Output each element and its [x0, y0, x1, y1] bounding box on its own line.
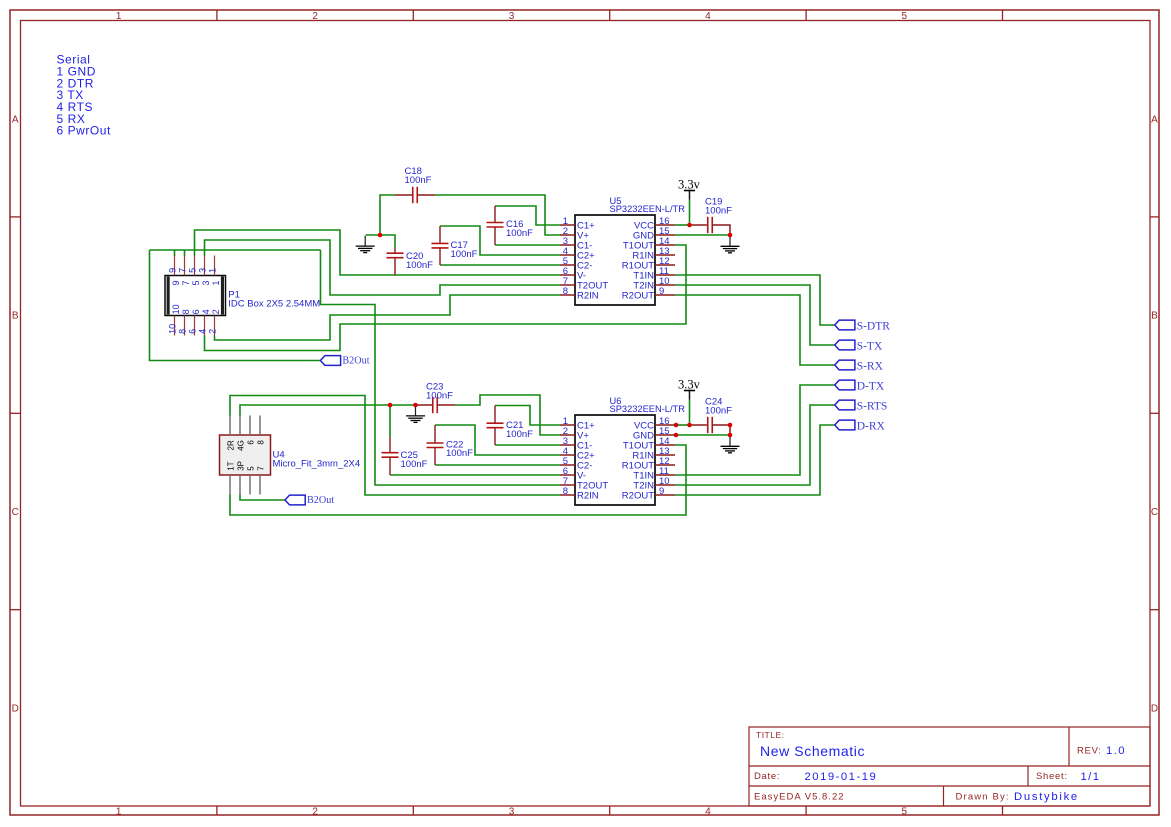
- net flag B2Out upper: [320, 356, 340, 366]
- wire U4 pin 4G to GND2 net C23: [240, 405, 416, 416]
- label C16 value 100nF: [506, 228, 533, 239]
- power 3.3v symbol (U6): [684, 391, 695, 400]
- wire U5 pin 15 GND: [675, 234, 730, 236]
- svg-text:10: 10: [167, 324, 177, 334]
- U5 pin 14 T1OUT: [655, 244, 675, 246]
- label net name S-RTS: [857, 401, 888, 413]
- U5 pin 15 GND: [655, 234, 675, 236]
- label U4 pin name 1T: [226, 461, 235, 470]
- label U4 part value Micro_Fit_3mm_2X4: [273, 459, 361, 470]
- junction 3.3v-VCC U6: [687, 423, 692, 428]
- label U6 pin number 7: [563, 476, 568, 487]
- wire P1 pin 7 riser: [184, 250, 186, 256]
- label U5 pin name C2-: [577, 261, 592, 272]
- svg-text:R2IN: R2IN: [577, 491, 599, 502]
- svg-text:Dustybike: Dustybike: [1014, 791, 1079, 803]
- U5 pin 10 T2IN: [655, 284, 675, 286]
- svg-text:R2OUT: R2OUT: [622, 491, 654, 502]
- svg-text:100nF: 100nF: [705, 205, 732, 216]
- wire U6 pin 10 T2IN to S-RTS: [675, 405, 835, 485]
- svg-text:2: 2: [312, 11, 318, 22]
- label P1 reference designator: [228, 290, 240, 301]
- label U6 pin name T1OUT: [623, 441, 654, 452]
- svg-text:D: D: [1151, 704, 1158, 715]
- svg-text:4: 4: [705, 806, 711, 817]
- capacitor C25: [382, 437, 399, 475]
- label C24 value 100nF: [705, 405, 732, 416]
- svg-text:3P: 3P: [236, 461, 245, 471]
- IC U5 SP3232EEN-L/TR body: [575, 215, 655, 305]
- IC U6 SP3232EEN-L/TR body: [575, 415, 655, 505]
- P1 pin 7: [184, 256, 186, 276]
- svg-text:R2IN: R2IN: [577, 291, 599, 302]
- wire P1 pin 5 to U5 pin 6 V-: [195, 230, 561, 275]
- svg-text:100nF: 100nF: [405, 175, 432, 186]
- junction U6 GND pin: [674, 433, 679, 438]
- svg-text:1T: 1T: [226, 461, 235, 470]
- U5 pin 6 V-: [560, 274, 575, 276]
- wire 3.3v U6 stem: [689, 400, 691, 426]
- label U5 reference designator: [610, 196, 622, 206]
- svg-text:4: 4: [705, 11, 711, 22]
- label U6 pin number 11: [659, 466, 669, 477]
- label U5 pin name V-: [577, 271, 586, 282]
- svg-text:8: 8: [563, 486, 568, 497]
- svg-text:5: 5: [902, 806, 908, 817]
- label P1 pin number 9: [167, 268, 181, 286]
- svg-text:3: 3: [197, 268, 207, 273]
- label C16 reference designator: [506, 219, 523, 230]
- U4 pin 2R: [229, 416, 231, 436]
- svg-text:4G: 4G: [236, 440, 245, 451]
- capacitor C23: [416, 397, 456, 413]
- U5 pin 13 R1IN: [655, 254, 675, 256]
- label U5 pin number 7: [563, 276, 568, 287]
- svg-text:Micro_Fit_3mm_2X4: Micro_Fit_3mm_2X4: [273, 459, 361, 470]
- svg-text:S-RTS: S-RTS: [857, 401, 888, 413]
- U4 pin 6: [249, 416, 251, 436]
- label C23 value 100nF: [426, 390, 453, 401]
- svg-text:C: C: [12, 507, 19, 518]
- U4 pin 3P: [239, 475, 241, 495]
- P1 pin 4: [204, 316, 206, 336]
- label U6 pin name V+: [577, 431, 589, 442]
- label U4 pin name 2R: [226, 440, 235, 450]
- label P1 pin number 5: [187, 268, 201, 286]
- svg-text:S-RX: S-RX: [857, 361, 884, 373]
- U4 pin 4G: [239, 416, 241, 436]
- U6 pin 8 R2IN: [560, 494, 575, 496]
- label C19 value 100nF: [705, 205, 732, 216]
- label U5 pin number 11: [659, 266, 669, 277]
- svg-text:D: D: [12, 704, 19, 715]
- svg-text:5: 5: [187, 268, 197, 273]
- label U6 pin number 9: [659, 486, 664, 497]
- junction GND2-C25: [388, 403, 393, 408]
- label P1 pin number 3: [197, 268, 211, 286]
- U5 pin 5 C2-: [560, 264, 575, 266]
- label U6 pin name T2IN: [633, 481, 654, 492]
- label C24 reference designator: [705, 396, 722, 407]
- P1 pin 9: [174, 256, 176, 276]
- wire B2Out net to flag: [150, 250, 321, 361]
- U6 pin 10 T2IN: [655, 484, 675, 486]
- label C20 value 100nF: [406, 260, 433, 271]
- label net name B2Out: [307, 495, 334, 506]
- label U5 pin name C1-: [577, 241, 592, 252]
- junction at C18/C20/ground: [378, 233, 383, 238]
- svg-text:5: 5: [246, 466, 255, 471]
- capacitor C19: [691, 217, 730, 235]
- svg-text:S-DTR: S-DTR: [857, 321, 891, 333]
- P1 pin 5: [194, 256, 196, 276]
- U6 pin 6 V-: [560, 474, 575, 476]
- label U6 reference designator: [610, 396, 622, 406]
- label C25 reference designator: [401, 450, 418, 461]
- svg-text:100nF: 100nF: [446, 448, 473, 459]
- label U5 pin number 14: [659, 236, 670, 247]
- label P1 pin number 6: [187, 309, 201, 334]
- capacitor C16: [487, 206, 504, 245]
- label U4 pin name 6: [246, 440, 255, 445]
- label U6 pin number 1: [563, 416, 568, 427]
- label P1 pin number 1: [207, 268, 221, 286]
- label U5 pin number 9: [659, 286, 664, 297]
- U6 pin 14 T1OUT: [655, 444, 675, 446]
- label U5 pin name VCC: [634, 221, 654, 232]
- label U4 pin name 4G: [236, 440, 245, 451]
- label U6 pin name R2OUT: [622, 491, 654, 502]
- svg-text:1: 1: [116, 11, 122, 22]
- svg-text:D-RX: D-RX: [857, 421, 886, 433]
- svg-text:100nF: 100nF: [506, 228, 533, 239]
- svg-text:3: 3: [509, 11, 515, 22]
- svg-text:6: 6: [191, 309, 201, 314]
- U5 pin 8 R2IN: [560, 294, 575, 296]
- label C18 value 100nF: [405, 175, 432, 186]
- label net name S-TX: [857, 341, 883, 353]
- label net name S-RX: [857, 361, 884, 373]
- label P1 pin number 10: [167, 304, 181, 334]
- net flag D-TX: [835, 380, 855, 390]
- label U6 pin name C2-: [577, 461, 592, 472]
- svg-text:4: 4: [197, 329, 207, 334]
- wire C22 bottom to U6 pin 5 C2-: [435, 464, 560, 466]
- U6 pin 2 V+: [560, 434, 575, 436]
- svg-text:6: 6: [246, 440, 255, 445]
- svg-text:Date:: Date:: [754, 771, 780, 782]
- svg-text:9: 9: [171, 280, 181, 285]
- svg-text:IDC Box 2X5 2.54MM: IDC Box 2X5 2.54MM: [228, 298, 320, 309]
- label U6 pin name R1IN: [632, 451, 654, 462]
- svg-text:8: 8: [177, 329, 187, 334]
- wire P1 pin 3 to U5 pin 7 T2OUT: [205, 240, 561, 295]
- U5 pin 11 T1IN: [655, 274, 675, 276]
- label U6 pin number 13: [659, 446, 670, 457]
- label U6 pin name V-: [577, 471, 586, 482]
- U6 pin 13 R1IN: [655, 454, 675, 456]
- label U6 pin name C1-: [577, 441, 592, 452]
- wire U4 pin 2R to U6 pin 8 R2IN: [230, 396, 560, 496]
- label U6 pin name T2OUT: [577, 481, 608, 492]
- label U6 pin number 12: [659, 456, 670, 467]
- wire C25 bottom to U6 pin 6 V-: [390, 474, 560, 476]
- capacitor C17: [432, 226, 449, 265]
- svg-text:A: A: [1151, 114, 1158, 125]
- P1 pin 10: [174, 316, 176, 336]
- P1 pin 2: [214, 316, 216, 336]
- U6 pin 16 VCC: [655, 424, 675, 426]
- label U6 pin name R2IN: [577, 491, 599, 502]
- capacitor C18: [395, 187, 435, 203]
- label C22 value 100nF: [446, 448, 473, 459]
- svg-text:9: 9: [167, 268, 177, 273]
- U5 pin 9 R2OUT: [655, 294, 675, 296]
- label U5 pin number 2: [563, 226, 568, 237]
- label C18 reference designator: [405, 166, 422, 177]
- label P1 pin number 7: [177, 268, 191, 286]
- svg-text:1: 1: [207, 268, 217, 273]
- wire P1 pin 2 to U5 pin 8 R2IN: [215, 295, 561, 340]
- label C19 reference designator: [705, 196, 722, 207]
- net flag S-DTR: [835, 320, 855, 330]
- label U4 reference designator: [273, 450, 285, 461]
- U6 pin 12 R1OUT: [655, 464, 675, 466]
- power 3.3v symbol (U5): [684, 191, 695, 200]
- svg-text:3.3v: 3.3v: [678, 178, 701, 192]
- svg-text:100nF: 100nF: [406, 260, 433, 271]
- wire U5 pin 9 R2OUT to S-RX: [675, 295, 835, 365]
- label P1 pin number 2: [207, 309, 221, 334]
- wire U5 pin 16 VCC: [675, 224, 691, 226]
- svg-text:SP3232EEN-L/TR: SP3232EEN-L/TR: [610, 204, 686, 214]
- label U5 pin name GND: [633, 231, 654, 242]
- wire GND2 junction to C25 top: [389, 405, 391, 437]
- svg-text:6: 6: [187, 329, 197, 334]
- svg-text:2: 2: [211, 309, 221, 314]
- wire U6 pin 11 T1IN to D-TX: [675, 385, 835, 475]
- capacitor C21: [487, 406, 504, 446]
- net flag S-RTS: [835, 400, 855, 410]
- label U5 pin number 1: [563, 216, 568, 227]
- wire B2Out net horizontal over P1: [150, 249, 321, 251]
- label net name D-TX: [857, 381, 885, 393]
- wire P1 pin 9 riser: [174, 250, 176, 256]
- wire P1 pin 4 to U5 pin 14 T1OUT: [205, 245, 687, 351]
- svg-text:SP3232EEN-L/TR: SP3232EEN-L/TR: [610, 404, 686, 414]
- wire U6 pin 16 VCC: [675, 424, 691, 426]
- capacitor C24: [691, 417, 730, 435]
- label U4 pin name 3P: [236, 461, 245, 471]
- label U5 pin number 4: [563, 246, 568, 257]
- ground G1 near C20: [356, 236, 375, 253]
- label U6 pin name VCC: [634, 421, 654, 432]
- wire C22 top to U6 pin 4 C2+: [435, 425, 560, 455]
- label U5 pin name C2+: [577, 251, 595, 262]
- label U5 pin number 13: [659, 246, 670, 257]
- label C20 reference designator: [406, 251, 423, 262]
- U6 pin 9 R2OUT: [655, 494, 675, 496]
- svg-text:TITLE:: TITLE:: [756, 730, 785, 740]
- U6 pin 4 C2+: [560, 454, 575, 456]
- label U6 pin number 15: [659, 426, 670, 437]
- wire C23 right to U6 pin 2 V+: [455, 395, 560, 435]
- label 3.3v net name (U6): [678, 378, 701, 392]
- net flag S-RX: [835, 360, 855, 370]
- label C17 reference designator: [451, 240, 468, 251]
- label U5 pin number 15: [659, 226, 670, 237]
- label P1 pin number 4: [197, 309, 211, 334]
- label U5 pin name C1+: [577, 221, 595, 232]
- label U6 pin name C2+: [577, 451, 595, 462]
- label U5 pin name R1IN: [632, 251, 654, 262]
- wire U5 pin 11 T1IN to S-DTR: [675, 275, 835, 325]
- label U5 pin number 5: [563, 256, 568, 267]
- svg-text:B: B: [1151, 311, 1158, 322]
- svg-text:Drawn By:: Drawn By:: [956, 792, 1010, 803]
- U4 pin 1T: [229, 475, 231, 495]
- label C21 reference designator: [506, 420, 523, 431]
- P1 pin 3: [204, 256, 206, 276]
- U5 pin 3 C1-: [560, 244, 575, 246]
- U5 pin 12 R1OUT: [655, 264, 675, 266]
- wire B2Out net to U6 pin 7 T2OUT: [321, 250, 561, 485]
- net flag D-RX: [835, 420, 855, 430]
- label C22 reference designator: [446, 439, 463, 450]
- svg-text:8: 8: [181, 309, 191, 314]
- label U5 pin name V+: [577, 231, 589, 242]
- label net name D-RX: [857, 421, 886, 433]
- label C21 value 100nF: [506, 429, 533, 440]
- P1 pin 6: [194, 316, 196, 336]
- label C23 reference designator: [426, 382, 443, 393]
- label U5 pin number 10: [659, 276, 670, 287]
- wire U5 pin 10 T2IN to S-TX: [675, 285, 835, 345]
- svg-text:D-TX: D-TX: [857, 381, 885, 393]
- svg-text:B2Out: B2Out: [342, 355, 369, 366]
- label U5 pin name R1OUT: [622, 261, 654, 272]
- capacitor C22: [427, 425, 444, 465]
- svg-text:9: 9: [659, 286, 664, 297]
- svg-text:3: 3: [201, 280, 211, 285]
- svg-text:B: B: [12, 311, 19, 322]
- wire C21 bottom to U6 pin 3 C1-: [495, 444, 560, 446]
- label U6 pin number 5: [563, 456, 568, 467]
- label C17 value 100nF: [451, 249, 478, 260]
- svg-text:7: 7: [181, 280, 191, 285]
- junction C24 right: [728, 423, 733, 428]
- svg-text:100nF: 100nF: [506, 429, 533, 440]
- label U5 pin name T2IN: [633, 281, 654, 292]
- svg-text:3: 3: [509, 806, 515, 817]
- wire C18 left to GND junction: [380, 195, 395, 235]
- svg-text:R2OUT: R2OUT: [622, 291, 654, 302]
- svg-text:A: A: [12, 114, 19, 125]
- junction GND U5 ground: [728, 233, 733, 238]
- label P1 pin number 8: [177, 309, 191, 334]
- U6 pin 1 C1+: [560, 424, 575, 426]
- wire U4 pin 3P to B2Out flag 2: [240, 495, 285, 501]
- wire GND1 junction to C20 top: [366, 235, 395, 248]
- svg-text:100nF: 100nF: [426, 390, 453, 401]
- label U6 pin number 10: [659, 476, 670, 487]
- svg-text:2R: 2R: [226, 440, 235, 450]
- svg-text:5: 5: [902, 11, 908, 22]
- ground G3 at C23: [406, 405, 425, 422]
- label U6 pin number 2: [563, 426, 568, 437]
- svg-text:10: 10: [171, 304, 181, 314]
- svg-text:100nF: 100nF: [451, 249, 478, 260]
- svg-text:1/1: 1/1: [1081, 771, 1101, 783]
- svg-text:1: 1: [211, 280, 221, 285]
- svg-text:1: 1: [116, 806, 122, 817]
- capacitor C20: [387, 248, 404, 276]
- junction U6 GND ground: [728, 433, 733, 438]
- wire C17 bottom to U5 pin 5 C2-: [440, 264, 560, 266]
- label U4 pin name 5: [246, 466, 255, 471]
- ground G2 at U5 GND: [721, 236, 740, 253]
- net flag B2Out lower: [285, 495, 305, 505]
- svg-text:5: 5: [191, 280, 201, 285]
- label U4 pin name 7: [256, 466, 265, 471]
- svg-text:100nF: 100nF: [401, 459, 428, 470]
- U5 pin 4 C2+: [560, 254, 575, 256]
- svg-text:6 PwrOut: 6 PwrOut: [57, 124, 112, 138]
- U4 pin 8: [259, 416, 261, 436]
- label P1 part value IDC Box 2X5 2.54MM: [228, 298, 320, 309]
- label C25 value 100nF: [401, 459, 428, 470]
- label U5 pin name T1OUT: [623, 241, 654, 252]
- U5 pin 16 VCC: [655, 224, 675, 226]
- wire C16 top to U5 pin 1 C1+: [495, 206, 560, 225]
- connector P1 body (IDC box): [165, 276, 226, 316]
- label U5 pin name T2OUT: [577, 281, 608, 292]
- label U5 pin name T1IN: [633, 271, 654, 282]
- svg-text:EasyEDA V5.8.22: EasyEDA V5.8.22: [754, 792, 845, 803]
- wire 3.3v U5 stem: [689, 200, 691, 226]
- U6 pin 3 C1-: [560, 444, 575, 446]
- svg-text:2019-01-19: 2019-01-19: [805, 771, 878, 783]
- title block: [749, 727, 1150, 806]
- svg-text:1.0: 1.0: [1106, 745, 1126, 757]
- svg-text:Sheet:: Sheet:: [1036, 771, 1068, 782]
- U4 pin 5: [249, 475, 251, 495]
- U6 pin 7 T2OUT: [560, 484, 575, 486]
- svg-text:S-TX: S-TX: [857, 341, 883, 353]
- U5 pin 1 C1+: [560, 224, 575, 226]
- svg-text:100nF: 100nF: [705, 405, 732, 416]
- ground G4 at U6 GND: [721, 436, 740, 453]
- label U5 pin name R2OUT: [622, 291, 654, 302]
- P1 pin 8: [184, 316, 186, 336]
- junction GND2-ground G3: [413, 403, 418, 408]
- U5 pin 2 V+: [560, 234, 575, 236]
- svg-text:B2Out: B2Out: [307, 495, 334, 506]
- label 3.3v net name (U5): [678, 178, 701, 192]
- P1 pin 1: [214, 256, 216, 276]
- svg-text:REV:: REV:: [1077, 746, 1102, 757]
- label U5 pin name R2IN: [577, 291, 599, 302]
- label U6 pin name R1OUT: [622, 461, 654, 472]
- svg-text:9: 9: [659, 486, 664, 497]
- label net name B2Out: [342, 355, 369, 366]
- junction U6 VCC pin: [674, 423, 679, 428]
- net flag S-TX: [835, 340, 855, 350]
- label net name S-DTR: [857, 321, 891, 333]
- label U6 pin number 14: [659, 436, 670, 447]
- label U6 pin name GND: [633, 431, 654, 442]
- svg-text:New Schematic: New Schematic: [760, 743, 865, 759]
